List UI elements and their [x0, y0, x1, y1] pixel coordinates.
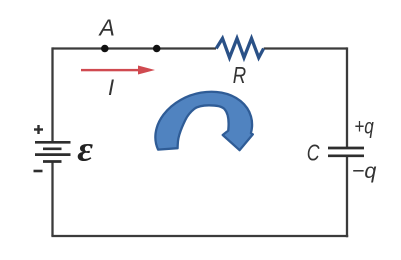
wire right lower	[346, 156, 348, 237]
wire bottom	[51, 235, 348, 237]
battery (emf source) plates	[35, 142, 71, 161]
svg-text:C: C	[307, 140, 321, 166]
clockwise loop arrow (blue)	[155, 92, 252, 150]
wire top-left segment	[51, 47, 348, 237]
svg-text:−q: −q	[352, 159, 377, 183]
wire left lower	[51, 162, 53, 237]
wire right upper	[346, 47, 348, 148]
svg-text:ε: ε	[77, 130, 94, 169]
svg-text:I: I	[108, 75, 114, 100]
svg-text:A: A	[98, 15, 115, 41]
battery minus sign	[34, 170, 43, 173]
svg-text:R: R	[233, 62, 246, 88]
wire left upper	[51, 47, 53, 142]
current arrow I (red)	[81, 66, 155, 75]
node A dot (switch terminal 1)	[101, 45, 109, 53]
switch terminal dot 2	[153, 45, 161, 53]
svg-text:+q: +q	[354, 115, 374, 139]
battery plus sign	[34, 125, 43, 134]
resistor R1 zigzag	[216, 38, 263, 57]
wire top-right segment	[264, 47, 347, 49]
capacitor C plates	[328, 148, 364, 156]
